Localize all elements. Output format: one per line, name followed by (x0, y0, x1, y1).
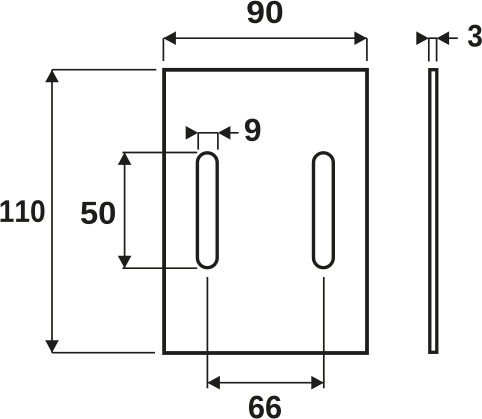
dimension 110 line (51, 70, 53, 353)
dimension 90 arrow right (354, 31, 367, 45)
dimension 3 label (468, 25, 482, 47)
left slot (197, 153, 217, 268)
dimension 110 arrow bottom (45, 340, 59, 353)
dimension 90 arrow left (163, 31, 176, 45)
dimension 9 arrow left (186, 126, 199, 140)
dimension 66 label (249, 396, 281, 419)
dimension 66 arrow right (311, 376, 324, 390)
dimension 90 label (247, 1, 282, 23)
dimension 9 arrow right (218, 126, 231, 140)
dimension 66 arrow left (207, 376, 220, 390)
dimension 66 extension line right (323, 277, 325, 388)
dimension 3 arrow right (437, 31, 450, 45)
dimension 50 extension line top (122, 152, 197, 154)
dimension 90 line (164, 37, 367, 39)
dimension 50 arrow top (118, 152, 132, 165)
dimension 90 extension line right (366, 38, 368, 61)
dimension 50 extension line bottom (122, 267, 197, 269)
dimension 50 line (124, 153, 126, 269)
dimension 9 line (198, 132, 218, 134)
dimension 3 arrow left (416, 31, 429, 45)
dimension 3 extension line right (436, 38, 438, 62)
dimension 90 extension line left (162, 38, 164, 61)
dimension 66 line (207, 382, 323, 384)
dimension 50 label (81, 202, 115, 224)
dimension 110 extension line top (52, 69, 156, 71)
dimension 110 extension line bottom (52, 352, 155, 354)
side view plate (430, 70, 437, 353)
dimension 9 extension line left (197, 133, 199, 150)
dimension 3 extension line left (428, 38, 430, 62)
dimension 3 line (429, 37, 437, 39)
dimension 9 tail line (230, 132, 238, 134)
dimension 9 extension line right (217, 133, 219, 150)
dimension 110 label (0, 200, 44, 222)
dimension 9 label (245, 119, 261, 142)
right slot (314, 153, 334, 268)
dimension 66 extension line left (206, 277, 208, 388)
dimension 50 arrow bottom (118, 256, 132, 269)
plate front view outline (164, 70, 367, 353)
dimension 110 arrow top (45, 70, 59, 83)
dimension 3 tail line (449, 37, 458, 39)
